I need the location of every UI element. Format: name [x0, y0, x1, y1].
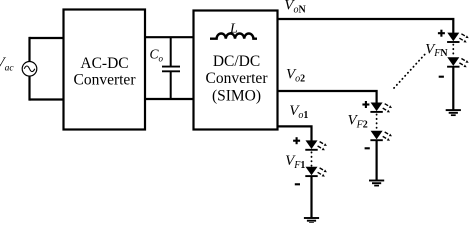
minus terminal string 2: [365, 147, 370, 149]
LED D1a: [305, 140, 327, 150]
inductor L: [210, 34, 257, 39]
LED D1b: [305, 167, 327, 177]
ground string 1: [304, 218, 319, 223]
svg-text:DC/DC: DC/DC: [213, 53, 260, 70]
wire: [376, 140, 378, 180]
svg-text:VoN: VoN: [284, 0, 306, 16]
svg-text:VFN: VFN: [425, 41, 448, 59]
DC/DC converter block (SIMO): [194, 11, 278, 130]
capacitor Co: [162, 37, 180, 99]
wire: [30, 37, 65, 39]
dotted wire string 1: [311, 152, 313, 166]
wire VoN: [278, 19, 454, 34]
LED DNb: [447, 57, 469, 67]
minus terminal string 1: [295, 183, 300, 185]
voltage source Vac: [22, 62, 37, 77]
svg-text:Vac: Vac: [0, 55, 14, 74]
plus terminal string 1: [293, 137, 300, 144]
LED D2b: [370, 131, 392, 141]
wire: [30, 98, 65, 100]
LED DNa: [447, 33, 469, 43]
svg-text:L: L: [229, 21, 238, 36]
svg-text:Vo2: Vo2: [286, 67, 305, 85]
dotted continuation between string 2 and string N: [394, 52, 427, 88]
wire: [28, 37, 30, 101]
wire Vo1: [278, 126, 312, 141]
plus terminal string 2: [362, 101, 369, 108]
wire: [145, 98, 194, 100]
svg-text:AC-DC: AC-DC: [80, 55, 128, 72]
minus terminal string N: [439, 76, 444, 78]
svg-text:Vo1: Vo1: [289, 103, 308, 121]
wire: [145, 36, 194, 38]
wire: [310, 176, 312, 218]
svg-text:VF2: VF2: [348, 113, 368, 131]
dotted wire string N: [452, 45, 454, 57]
svg-text:Converter: Converter: [74, 72, 137, 89]
svg-text:(SIMO): (SIMO): [212, 88, 261, 105]
svg-text:Converter: Converter: [206, 70, 269, 87]
ground string 2: [369, 181, 384, 186]
wire Vo2: [278, 91, 377, 104]
dotted wire string 2: [376, 114, 378, 129]
svg-text:Co: Co: [150, 47, 164, 64]
ground string N: [446, 110, 461, 115]
LED D2a: [370, 103, 392, 113]
wire: [452, 67, 454, 110]
plus terminal string N: [438, 30, 445, 37]
svg-text:VF1: VF1: [285, 153, 305, 171]
AC-DC converter block: [64, 10, 146, 130]
